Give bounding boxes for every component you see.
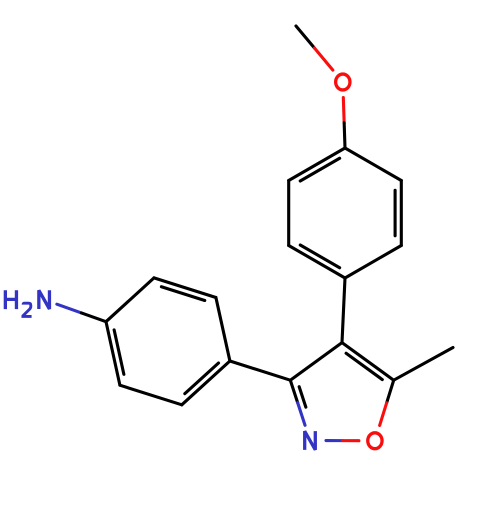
- bond ring B C4 to isoxazole C3: [230, 361, 290, 380]
- ring B bond C4-C5: [216, 298, 230, 362]
- atom label O (isoxazole oxygen): [368, 433, 382, 449]
- ring A bond C4-C5: [289, 246, 345, 279]
- isoxazole bond C5-O: [387, 380, 394, 403]
- atom label subscript 2 of H2N (amine): [23, 303, 32, 316]
- ring B bond C5-C6: [154, 278, 216, 298]
- isoxazole bond C4-C5: [342, 343, 394, 381]
- ring A bond C3-C4: [345, 246, 401, 279]
- isoxazole bond N-O: [326, 439, 342, 442]
- atom label O (methoxy oxygen): [336, 74, 350, 90]
- isoxazole bond C3-C4: [290, 343, 342, 381]
- isoxazole bond C3-N: [290, 380, 297, 403]
- ring B bond C6-C1: [106, 278, 154, 322]
- isoxazole double bond inner line C4=C5: [346, 353, 382, 379]
- ring A double bond inner line C4=C5: [300, 245, 339, 268]
- ring A double bond inner line C2=C3: [394, 190, 397, 236]
- ring B double bond inner line C1=C2: [114, 330, 124, 374]
- bond H2N-C1 (aniline): [57, 304, 82, 313]
- ring B bond C1-C2: [106, 322, 120, 386]
- bond O-C1 (methoxy to ring A): [342, 97, 346, 122]
- bond C5-CH3 (5-methyl): [394, 348, 453, 381]
- ring A bond C2-C3: [400, 181, 403, 246]
- ring B bond C3-C4: [182, 361, 230, 405]
- atom label N (isoxazole nitrogen): [305, 431, 316, 450]
- ring A bond C1-C2: [345, 148, 401, 181]
- ring B double bond inner line C3=C4: [185, 363, 219, 394]
- atom label N of H2N (amine nitrogen): [39, 290, 50, 309]
- ring A double bond inner line C6=C1: [300, 158, 339, 181]
- atom label H of H2N (amine): [5, 290, 16, 309]
- ring A bond C5-C6: [287, 181, 290, 246]
- bond CH3-O (methoxy methyl): [296, 26, 314, 48]
- isoxazole double bond inner line C3=N: [299, 387, 306, 407]
- ring A bond C6-C1: [289, 148, 345, 181]
- ring B bond C2-C3: [120, 385, 182, 405]
- ring B double bond inner line C5=C6: [161, 287, 204, 301]
- bond ring A C4 to isoxazole C4: [342, 278, 345, 343]
